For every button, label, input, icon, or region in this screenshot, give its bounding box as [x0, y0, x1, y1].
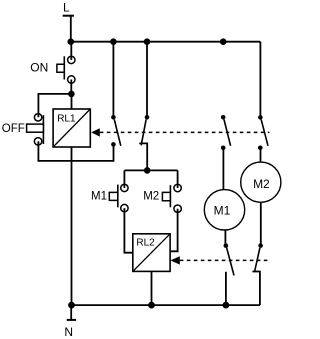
wire junction to OFF [38, 94, 71, 117]
motor M2 [241, 162, 281, 202]
junction contact5/bus [223, 302, 230, 309]
wire ON to junction [70, 80, 72, 94]
wire bus to contact1 [112, 42, 114, 118]
svg-text:M1: M1 [214, 204, 231, 218]
wire contact4 to M2 motor [260, 148, 262, 163]
node L terminal tick [63, 15, 74, 17]
wire to M2 button [177, 170, 179, 188]
svg-text:ON: ON [30, 61, 48, 75]
wire to M1 button [123, 170, 125, 188]
node junction feed M1/M2 buttons [144, 167, 151, 174]
motor M1 [204, 190, 244, 230]
wire junction to RL1 coil [71, 94, 73, 109]
RL1 linkage arrow [91, 128, 100, 136]
relay coil RL2 [133, 234, 170, 272]
push button M1 [109, 184, 128, 212]
relay coil RL1 [53, 109, 90, 147]
junction at L/ON [68, 38, 75, 45]
junction bus/contact1 [110, 38, 117, 45]
junction N/RL1 [68, 302, 75, 309]
push button M2 [162, 184, 181, 212]
wire bottom bus [72, 304, 260, 306]
wire contact3 to M1 motor [222, 148, 224, 191]
wire RL2 coil to bottom bus [151, 271, 153, 305]
wire top bus [71, 41, 261, 43]
wire bus to ON button [70, 42, 72, 60]
junction RL2/bus [148, 302, 155, 309]
contact RL1-A (latch) [111, 115, 121, 147]
wire M1 motor to contact5 [224, 230, 226, 246]
RL2 linkage dashed line [180, 259, 269, 261]
svg-text:OFF: OFF [2, 123, 25, 135]
node N terminal tick [67, 319, 76, 321]
RL2 linkage arrow [170, 256, 179, 264]
svg-text:M2: M2 [143, 191, 159, 203]
node junction ON/OFF/RL1 [68, 91, 75, 98]
contact RL2-A (below M1) [224, 243, 235, 305]
wire RL1 coil to bottom bus [71, 147, 73, 305]
push button ON [57, 56, 75, 83]
wire M2 motor to contact6 [260, 202, 262, 246]
svg-text:M1: M1 [91, 191, 107, 203]
svg-text:RL1: RL1 [57, 113, 76, 124]
svg-text:RL2: RL2 [136, 237, 155, 248]
wire feed rail to buttons [124, 169, 177, 171]
contact RL1-D (M2 motor) [258, 115, 268, 150]
wire bus to contact2 [146, 42, 148, 118]
contact RL1-B [139, 115, 149, 170]
junction bus/contact2 [144, 38, 151, 45]
push button OFF (NC) [27, 114, 44, 145]
svg-text:M2: M2 [253, 177, 270, 191]
RL1 linkage dashed line [100, 131, 270, 133]
wire M1 button to RL2 coil [124, 208, 132, 253]
contact RL2-B (below M2) [252, 243, 263, 305]
wire bus to N terminal [70, 305, 72, 320]
svg-text:L: L [63, 1, 70, 15]
svg-text:N: N [64, 325, 73, 339]
contact RL1-C (M1 motor) [221, 115, 231, 150]
junction bus/contact3 [220, 38, 227, 45]
wire OFF bottom to contact1 bottom [38, 141, 113, 161]
wire L to top bus [70, 16, 72, 42]
wire M2 button to RL2 coil [170, 209, 177, 252]
wire bus right end down to contact4 [259, 42, 261, 118]
